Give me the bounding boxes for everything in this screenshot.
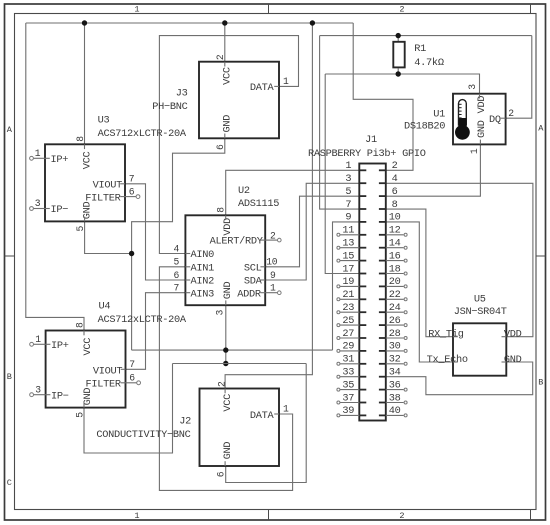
J1 pin 14 lead [379, 247, 386, 249]
frame row divider ticks [5, 255, 15, 257]
wire GND rail2 to J2 GND pin 6 [226, 364, 307, 483]
svg-text:U3: U3 [98, 115, 110, 127]
op-amp U5 JSN-SR04T body [453, 323, 506, 375]
U2 AIN3 inner tick [185, 292, 190, 294]
svg-text:GND: GND [476, 120, 488, 138]
svg-text:10: 10 [266, 257, 278, 268]
U2 ADDR pin 1 stub [265, 292, 277, 294]
J1 pin 32 lead [379, 363, 386, 365]
wire U2 VDD to J1 pin 1 [226, 170, 360, 215]
wire U1 GND pin 1 to J1 pin 6 [386, 144, 481, 196]
svg-text:40: 40 [389, 405, 401, 417]
U2 AIN0 inner tick [185, 253, 190, 255]
J1 pin 37 lead [359, 402, 366, 404]
svg-text:14: 14 [389, 238, 401, 250]
J1 pin 28 lead [379, 337, 386, 339]
J1 pin 13 lead [359, 247, 366, 249]
J2 pin 1 inner tick [274, 413, 279, 415]
wire J3 GND pin 6 down-left [132, 138, 225, 350]
svg-text:6: 6 [174, 270, 180, 281]
svg-text:Tx_Echo: Tx_Echo [427, 354, 468, 366]
wire 5V to J3 VCC pin 2 [224, 23, 226, 62]
wire SDA U2 pin9 to J1 pin 3 [265, 183, 359, 280]
svg-text:U1: U1 [433, 108, 445, 120]
J1 pin 35 no-connect stub [340, 389, 359, 391]
J1 pin 5 lead [359, 195, 366, 197]
J1 pin 15 lead [359, 260, 366, 262]
svg-text:1: 1 [35, 334, 41, 345]
J1 pin 11 open pad [337, 233, 340, 236]
U4 pin 6 inner tick [121, 382, 126, 384]
J1 pin 27 no-connect stub [340, 337, 359, 339]
svg-text:2: 2 [217, 381, 228, 387]
svg-text:J1: J1 [365, 134, 377, 146]
svg-text:IP+: IP+ [51, 154, 69, 166]
junction 5V / U3 VCC [82, 20, 87, 25]
J1 pin 28 no-connect stub [386, 337, 404, 339]
J1 pin 21 open pad [337, 298, 340, 301]
svg-text:15: 15 [342, 250, 354, 262]
J1 pin 20 lead [379, 285, 386, 287]
svg-text:RX_Tig: RX_Tig [428, 328, 463, 340]
J1 pin 35 open pad [337, 388, 340, 391]
wire GND rail2 to U4 GND pin 5 [84, 364, 173, 454]
svg-text:4.7kΩ: 4.7kΩ [414, 57, 444, 69]
wire 5V to U3 VCC pin 8 [84, 23, 86, 144]
wire GND rail1 to J1 pin 9 [333, 222, 360, 350]
J1 pin 24 open pad [404, 311, 407, 314]
svg-text:5: 5 [74, 412, 85, 418]
J1 pin 4 lead [379, 182, 386, 184]
J1 pin 1 lead [359, 169, 366, 171]
svg-text:JSN−SR04T: JSN−SR04T [454, 306, 507, 318]
svg-text:SDA: SDA [244, 276, 263, 288]
svg-text:22: 22 [389, 289, 401, 301]
svg-text:GND: GND [222, 281, 234, 299]
J1 pin 34 lead [379, 376, 386, 378]
op-amp U2 ADS1115 body [185, 215, 265, 305]
wire DQ horizontal run [320, 35, 532, 37]
wire 5V left drop to U4 VCC [26, 23, 84, 331]
svg-text:5: 5 [345, 186, 351, 198]
wire GND rail 1 [132, 349, 333, 351]
J1 pin 19 no-connect stub [340, 285, 359, 287]
U2 SCL inner tick [260, 266, 265, 268]
svg-text:SCL: SCL [244, 263, 262, 275]
svg-text:IP−: IP− [51, 390, 69, 402]
svg-text:B: B [538, 378, 543, 388]
svg-text:1: 1 [270, 283, 276, 294]
U2 pin 1 open pad [278, 291, 282, 295]
svg-text:12: 12 [389, 225, 401, 237]
svg-text:19: 19 [342, 276, 354, 288]
U4 pin 1 inner tick [46, 343, 51, 345]
wire 3V3 drop to J1 pin 17 [325, 74, 359, 274]
J1 pin 29 no-connect stub [340, 350, 359, 352]
svg-text:5: 5 [75, 226, 86, 232]
svg-text:8: 8 [392, 199, 398, 211]
svg-text:VIOUT: VIOUT [93, 180, 123, 192]
svg-text:GND: GND [222, 115, 234, 133]
svg-text:7: 7 [345, 199, 351, 211]
J1 pin 30 open pad [404, 349, 407, 352]
wire J3 DATA pin 1 [159, 36, 298, 254]
J1 pin 25 open pad [337, 324, 340, 327]
svg-text:2: 2 [392, 160, 398, 172]
J1 pin 23 open pad [337, 311, 340, 314]
junction U2 GND / rail2 [223, 361, 228, 366]
svg-text:7: 7 [129, 359, 135, 370]
svg-text:U2: U2 [238, 185, 250, 197]
J1 pin 25 no-connect stub [340, 324, 359, 326]
U3 pin 6 open pad [136, 195, 140, 199]
svg-text:J3: J3 [176, 88, 188, 100]
wire U5 GND to J1 pin 34 [386, 362, 533, 395]
connector J3 PH-BNC body [199, 62, 279, 139]
J1 pin 20 open pad [404, 285, 407, 288]
wire R1 top stub [397, 36, 399, 42]
U2 ALERT inner tick [260, 239, 265, 241]
wire DQ to J1 pin 7 [320, 36, 360, 210]
svg-text:VIOUT: VIOUT [93, 365, 123, 377]
svg-text:32: 32 [389, 354, 401, 366]
J1 pin 18 lead [379, 273, 386, 275]
svg-text:2: 2 [399, 511, 404, 521]
U4 pin 3 inner tick [46, 394, 51, 396]
svg-text:13: 13 [342, 238, 354, 250]
svg-text:U5: U5 [474, 293, 486, 305]
J1 pin 37 open pad [337, 401, 340, 404]
J1 pin 12 lead [379, 234, 386, 236]
svg-text:27: 27 [342, 328, 354, 340]
svg-text:DQ: DQ [489, 114, 501, 126]
J1 pin 37 no-connect stub [340, 402, 359, 404]
U2 AIN2 inner tick [185, 279, 190, 281]
J1 pin 31 no-connect stub [340, 363, 359, 365]
junction 5V / J3 VCC [222, 20, 227, 25]
U3 pin 3 inner tick [45, 208, 50, 210]
U5 VDD inner tick [502, 336, 507, 338]
wire J1 pin 8 to U5 RX_Tig [386, 209, 453, 337]
svg-text:VDD: VDD [476, 96, 488, 114]
U2 SDA inner tick [260, 279, 265, 281]
J1 pin 27 lead [359, 337, 366, 339]
J1 pin 31 lead [359, 363, 366, 365]
svg-text:3: 3 [467, 84, 478, 90]
J1 pin 27 open pad [337, 337, 340, 340]
svg-text:1: 1 [134, 5, 139, 15]
svg-text:24: 24 [389, 302, 401, 314]
svg-text:DATA: DATA [250, 82, 275, 94]
wire U2 GND pin 3 stub [225, 305, 227, 363]
J2 pin 6 inner tick [224, 461, 226, 466]
svg-text:IP−: IP− [51, 204, 69, 216]
J1 pin 15 open pad [337, 259, 340, 262]
U1 pin 2 inner tick [501, 117, 506, 119]
wire U3 VIOUT pin 7 to U2 AIN2 [125, 184, 185, 280]
svg-text:26: 26 [389, 315, 401, 327]
svg-text:R1: R1 [414, 43, 426, 55]
J1 pin 39 lead [359, 414, 366, 416]
wire 3V3 run R1 to U1 VDD [325, 74, 479, 94]
svg-text:DATA: DATA [250, 410, 275, 422]
svg-text:C: C [7, 478, 12, 488]
svg-text:AIN0: AIN0 [191, 249, 215, 261]
wire J1 pin 4 to U5 VDD [386, 183, 533, 336]
J1 pin 11 lead [359, 234, 366, 236]
connector J1 RASPBERRY Pi3b+ GPIO body [359, 164, 386, 421]
svg-text:18: 18 [389, 263, 401, 275]
J1 pin 14 no-connect stub [386, 247, 404, 249]
J1 pin 30 lead [379, 350, 386, 352]
svg-text:6: 6 [392, 186, 398, 198]
J1 pin 25 lead [359, 324, 366, 326]
svg-text:AIN1: AIN1 [191, 263, 215, 275]
J1 pin 13 no-connect stub [340, 247, 359, 249]
J1 pin 11 no-connect stub [340, 234, 359, 236]
J1 pin 36 lead [379, 389, 386, 391]
svg-text:9: 9 [345, 212, 351, 224]
J1 pin 6 lead [379, 195, 386, 197]
svg-text:AIN3: AIN3 [191, 288, 215, 300]
svg-text:37: 37 [342, 392, 354, 404]
J1 pin 16 open pad [404, 259, 407, 262]
svg-text:AIN2: AIN2 [191, 276, 215, 288]
svg-text:17: 17 [342, 263, 354, 275]
svg-text:10: 10 [389, 212, 401, 224]
junction DQ / R1 top [396, 33, 401, 38]
svg-text:36: 36 [389, 379, 401, 391]
svg-text:1: 1 [345, 160, 351, 172]
J1 pin 36 no-connect stub [386, 389, 404, 391]
U2 AIN1 inner tick [185, 266, 190, 268]
wire J1 pin 10 to U5 Tx_Echo [386, 222, 453, 362]
svg-text:8: 8 [74, 322, 85, 328]
svg-text:3: 3 [214, 310, 225, 316]
J1 pin 14 open pad [404, 246, 407, 249]
svg-text:DS18B20: DS18B20 [404, 121, 445, 133]
J1 pin 23 no-connect stub [340, 311, 359, 313]
U1 thermometer tube [458, 100, 466, 125]
svg-text:GND: GND [222, 442, 234, 460]
svg-text:34: 34 [389, 367, 401, 379]
svg-text:IP+: IP+ [51, 340, 69, 352]
U3 pin 5 inner tick [84, 217, 86, 222]
svg-text:2: 2 [508, 108, 514, 119]
U3 pin 6 inner tick [120, 196, 125, 198]
U4 pin 7 inner tick [121, 368, 126, 370]
svg-text:6: 6 [129, 186, 135, 197]
svg-text:VCC: VCC [81, 152, 93, 170]
svg-text:RASPBERRY Pi3b+ GPIO: RASPBERRY Pi3b+ GPIO [308, 148, 426, 160]
J1 pin 24 lead [379, 311, 386, 313]
J1 pin 35 lead [359, 389, 366, 391]
transistor U1 DS18B20 body [453, 94, 506, 145]
U4 pin 8 inner tick [83, 331, 85, 336]
J1 pin 40 open pad [404, 414, 407, 417]
J1 pin 38 no-connect stub [386, 402, 404, 404]
U1 thermometer mercury column [459, 118, 467, 127]
J1 pin 29 lead [359, 350, 366, 352]
U1 thermometer bulb [455, 125, 470, 140]
J1 pin 39 no-connect stub [340, 414, 359, 416]
wire U3 GND pin 5 [85, 221, 132, 253]
wire R1 bottom stub [397, 69, 399, 75]
J1 pin 8 lead [379, 208, 386, 210]
connector J2 CONDUCTIVITY-BNC body [200, 389, 280, 467]
J1 pin 13 open pad [337, 246, 340, 249]
junction U2 GND / rail1 [223, 347, 228, 352]
wire 5V drop to J2 VCC pin 2 [225, 23, 312, 389]
J1 pin 38 open pad [404, 401, 407, 404]
svg-text:7: 7 [174, 283, 180, 294]
J1 pin 18 no-connect stub [386, 273, 404, 275]
svg-text:3: 3 [345, 173, 351, 185]
svg-text:A: A [7, 125, 13, 135]
J1 pin 22 open pad [404, 298, 407, 301]
svg-text:1: 1 [283, 404, 289, 415]
svg-text:30: 30 [389, 341, 401, 353]
svg-text:31: 31 [342, 354, 354, 366]
svg-text:4: 4 [392, 173, 398, 185]
J1 pin 26 lead [379, 324, 386, 326]
wire J2 DATA pin 1 to U2 AIN1 [159, 267, 292, 491]
U3 pin 1 IP+ stub [34, 157, 45, 159]
J1 pin 38 lead [379, 402, 386, 404]
J3 pin 6 inner tick [224, 134, 226, 139]
wire SCL U2 pin10 to J1 pin 5 [265, 196, 359, 267]
J3 pin 1 inner tick [274, 85, 279, 87]
J1 pin 29 open pad [337, 349, 340, 352]
svg-text:6: 6 [129, 373, 135, 384]
U2 pin 3 inner tick [225, 300, 227, 305]
J1 pin 33 no-connect stub [340, 376, 359, 378]
U2 pin 2 open pad [278, 238, 282, 242]
J1 pin 7 lead [359, 208, 366, 210]
J1 pin 17 lead [359, 273, 366, 275]
svg-text:VDD: VDD [222, 218, 234, 236]
J1 pin 24 no-connect stub [386, 311, 404, 313]
U2 ADDR inner tick [260, 292, 265, 294]
svg-text:11: 11 [342, 225, 354, 237]
U4 pin 1 IP+ stub [34, 343, 46, 345]
J1 pin 26 open pad [404, 324, 407, 327]
svg-text:1: 1 [35, 148, 41, 159]
svg-text:VDD: VDD [504, 328, 522, 340]
J1 pin 12 no-connect stub [386, 234, 404, 236]
J1 pin 16 lead [379, 260, 386, 262]
U1 pin 1 inner tick [479, 140, 481, 145]
wire DQ to U1 pin 2 [506, 36, 532, 119]
svg-text:A: A [538, 124, 544, 134]
svg-text:B: B [7, 372, 12, 382]
U4 pin 6 open pad [137, 381, 141, 385]
op-amp U3 ACS712xLCTR-20A body [45, 144, 125, 221]
svg-text:21: 21 [342, 289, 354, 301]
junction 3V3 / R1 bottom [396, 71, 401, 76]
J1 pin 40 no-connect stub [386, 414, 404, 416]
J1 pin 33 lead [359, 376, 366, 378]
svg-text:2: 2 [215, 54, 226, 60]
svg-text:ALERT/RDY: ALERT/RDY [210, 236, 263, 248]
J1 pin 22 no-connect stub [386, 298, 404, 300]
U1 thermometer scale ticks [459, 103, 462, 105]
J1 pin 32 open pad [404, 362, 407, 365]
svg-text:J2: J2 [179, 415, 191, 427]
J1 pin 18 open pad [404, 272, 407, 275]
J1 pin 22 lead [379, 298, 386, 300]
J2 pin 2 inner tick [224, 389, 226, 394]
U3 pin 1 open pad [30, 156, 34, 160]
J1 pin 40 lead [379, 414, 386, 416]
J3 pin 2 inner tick [224, 62, 226, 67]
svg-text:38: 38 [389, 392, 401, 404]
svg-text:8: 8 [75, 136, 86, 142]
U4 pin 6 stub [126, 382, 137, 384]
svg-text:1: 1 [134, 511, 139, 521]
svg-text:2: 2 [399, 5, 404, 15]
svg-text:33: 33 [342, 367, 354, 379]
wire 5V to J1 pin 2 [353, 23, 413, 170]
svg-text:VCC: VCC [222, 394, 234, 412]
J1 pin 19 lead [359, 285, 366, 287]
wire U4 VIOUT pin 7 to U2 AIN3 [126, 293, 186, 370]
U3 pin 6 stub [125, 196, 136, 198]
U3 pin 3 open pad [30, 207, 34, 211]
J1 pin 21 lead [359, 298, 366, 300]
junction 5V / J2 VCC drop [310, 20, 315, 25]
junction U3 GND [129, 251, 134, 256]
U4 pin 5 inner tick [83, 403, 85, 408]
J1 pin 9 lead [359, 221, 366, 223]
svg-text:FILTER: FILTER [86, 379, 121, 391]
U3 pin 1 inner tick [45, 157, 50, 159]
J1 pin 23 lead [359, 311, 366, 313]
svg-text:1: 1 [469, 148, 480, 154]
J1 pin 15 no-connect stub [340, 260, 359, 262]
J1 pin 39 open pad [337, 414, 340, 417]
J1 pin 20 no-connect stub [386, 285, 404, 287]
svg-text:9: 9 [270, 270, 276, 281]
svg-text:GND: GND [504, 354, 522, 366]
svg-text:8: 8 [215, 207, 226, 213]
J1 pin 31 open pad [337, 362, 340, 365]
svg-text:PH−BNC: PH−BNC [152, 101, 187, 113]
U4 pin 3 open pad [30, 393, 34, 397]
U3 pin 8 inner tick [84, 144, 86, 149]
svg-text:20: 20 [389, 276, 401, 288]
svg-text:28: 28 [389, 328, 401, 340]
svg-text:3: 3 [35, 384, 41, 395]
wire GND rail 2 [173, 363, 307, 365]
U3 pin 7 inner tick [120, 183, 125, 185]
svg-text:1: 1 [283, 76, 289, 87]
svg-text:U4: U4 [99, 301, 111, 313]
J1 pin 10 lead [379, 221, 386, 223]
svg-text:ADDR: ADDR [237, 288, 261, 300]
J1 pin 32 no-connect stub [386, 363, 404, 365]
U2 pin 8 inner tick [225, 215, 227, 220]
svg-text:ACS712xLCTR-20A: ACS712xLCTR-20A [98, 314, 187, 326]
J1 pin 3 lead [359, 182, 366, 184]
svg-text:23: 23 [342, 302, 354, 314]
J1 pin 21 no-connect stub [340, 298, 359, 300]
svg-text:6: 6 [215, 144, 226, 150]
svg-text:VCC: VCC [222, 67, 234, 85]
svg-text:6: 6 [216, 471, 227, 477]
J1 pin 12 open pad [404, 233, 407, 236]
J1 pin 36 open pad [404, 388, 407, 391]
